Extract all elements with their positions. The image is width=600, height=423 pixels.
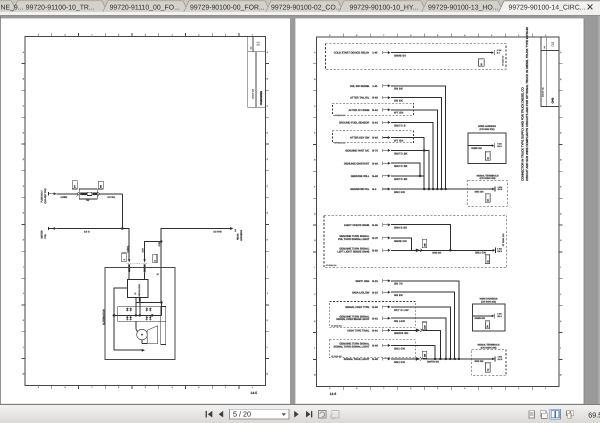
svg-text:SIGNAL HIGH TYPE: SIGNAL HIGH TYPE [345,306,369,309]
svg-text:7: 7 [91,34,92,37]
svg-text:(CN SGN4 GN): (CN SGN4 GN) [481,346,497,349]
svg-text:GENUINE PART A/C: GENUINE PART A/C [345,150,369,153]
svg-text:8: 8 [356,387,357,390]
svg-text:4: 4 [172,34,173,37]
svg-text:CIRCUIT AND SUB WIRE COMPLIANT: CIRCUIT AND SUB WIRE COMPLIANTS CIRCUITS… [525,27,529,181]
wire drop to meter wire [121,194,123,229]
svg-text:6: 6 [410,34,411,37]
wire label 0.5 Y (vertical) [142,247,145,252]
svg-text:L: L [23,346,24,349]
svg-text:CONNECTOR IN TRUCK TYPE SUPPLY: CONNECTOR IN TRUCK TYPE SUPPLY AND FOR T… [520,87,524,181]
svg-text:GN B: GN B [497,250,502,253]
wire branch to S pin [145,242,162,260]
case ground arrow [114,349,145,352]
row wire TAIL SW SENSE [350,84,446,189]
svg-text:GN/T/D GN: GN/T/D GN [427,361,439,364]
wire fuse to F1 [57,193,78,195]
junction dot R7-R8 [419,175,422,178]
svg-text:99729-90100-00_FOR...: 99729-90100-00_FOR... [190,4,265,11]
svg-text:12: 12 [486,261,489,263]
svg-text:6: 6 [118,34,119,37]
svg-text:99729-90100-10_HY...: 99729-90100-10_HY... [350,4,419,11]
wire L stub [128,272,130,279]
svg-text:L: L [560,347,561,350]
svg-text:AT SIGN 100: AT SIGN 100 [502,233,505,247]
svg-text:2: 2 [225,386,226,389]
svg-text:B-46: B-46 [372,137,378,140]
svg-text:3: 3 [198,34,199,37]
svg-text:5: 5 [145,34,146,37]
svg-text:5 / 20: 5 / 20 [233,410,251,419]
svg-text:WT GN: WT GN [394,139,403,142]
wire label 0.5 W-B [213,231,222,234]
row wire AFTER KEY SW [333,131,425,189]
svg-text:1W: 1W [234,229,237,232]
svg-text:GN B: GN B [497,145,502,148]
ground bus row 3 [344,351,493,364]
right page paper [295,18,585,403]
row wire GENUINE WILL [351,174,424,189]
svg-text:B-16: B-16 [372,291,378,294]
junction dot group2 [449,249,452,252]
svg-text:1-45: 1-45 [372,52,378,55]
svg-text:GN#B GN: GN#B GN [475,317,486,320]
svg-text:5: 5 [145,386,146,389]
svg-text:(CN SGN 100): (CN SGN 100) [481,301,496,304]
brush block [147,326,157,344]
wire rotor to frame [142,340,147,344]
svg-text:GN#B GN: GN#B GN [394,240,407,243]
svg-text:REGULATOR: REGULATOR [138,284,141,297]
row PNL TURN SIGNAL RIGHT [337,248,492,254]
bridge mid bus [114,314,162,316]
svg-text:1: 1 [252,386,253,389]
svg-text:GN#B B4: GN#B B4 [394,55,406,58]
left page frame zone digits [23,34,269,390]
svg-text:AT SIGN 100: AT SIGN 100 [331,355,342,358]
svg-text:21: 21 [480,63,483,65]
svg-text:GENUINE GN/START: GENUINE GN/START [344,162,370,165]
svg-text:8: 8 [65,386,66,389]
row COLD START DEVICE RELAY [334,51,492,58]
svg-text:GN# B BK: GN# B BK [394,227,407,230]
svg-text:12: 12 [486,369,489,371]
svg-text:(CN SGN 100): (CN SGN 100) [480,128,495,131]
svg-text:7: 7 [383,387,384,390]
svg-text:GEN/GFWD R/L: GEN/GFWD R/L [350,188,370,191]
svg-text:GN2 GN: GN2 GN [475,251,486,254]
pin terminal bus1 [492,186,503,192]
svg-text:GN2 GN: GN2 GN [432,252,441,255]
svg-text:SIGNAL TERMINALS: SIGNAL TERMINALS [477,343,500,346]
svg-text:GN/A-L/GLOW: GN/A-L/GLOW [352,291,370,294]
pin L male arrow [128,259,130,262]
svg-text:GN2 GN: GN2 GN [475,360,484,363]
svg-text:9: 9 [38,386,39,389]
svg-text:B-4: B-4 [372,188,377,191]
svg-text:GN2 GN: GN2 GN [394,347,405,350]
label ALTERNATOR (vertical) [102,309,105,325]
svg-text:9: 9 [329,387,330,390]
svg-text:(CN SGN4 GN): (CN SGN4 GN) [480,177,496,180]
svg-text:GN2 GN: GN2 GN [394,191,405,194]
svg-text:B-44: B-44 [372,329,378,332]
svg-text:3: 3 [491,387,492,390]
svg-text:LIGHT CHECK GN4B: LIGHT CHECK GN4B [344,224,369,227]
pin L female terminal [128,264,130,272]
connector mating dashed line [126,262,148,264]
junction dot [121,227,124,230]
bus 3 junction dots [434,358,460,361]
svg-text:7: 7 [383,34,384,37]
svg-text:B-48: B-48 [372,358,378,361]
svg-text:AT SIGN 100: AT SIGN 100 [335,114,346,117]
connector tag F7b [98,181,104,196]
svg-text:AFTER AT HOME: AFTER AT HOME [349,109,370,112]
svg-text:(15A KEY SW): (15A KEY SW) [44,188,47,203]
wire S stub [144,272,146,279]
junction dot R5 cross R6 [423,149,426,152]
node label REAR HARNESS (vertical) [236,229,243,241]
relay box wire harness [468,125,506,163]
svg-text:L: L [314,347,315,350]
connector tag F7a [72,181,78,197]
svg-text:8: 8 [65,34,66,37]
wire label 0.5 G [84,231,90,234]
svg-text:B-45: B-45 [372,224,378,227]
svg-text:SIGNAL TRAIL LIGHT: SIGNAL TRAIL LIGHT [344,358,370,361]
pin terminal TB1 [491,49,501,55]
svg-text:AT SIGN 100: AT SIGN 100 [326,264,337,267]
svg-text:CN SGN 1W: CN SGN 1W [502,56,505,66]
wire regulator bottom stub 2 [139,298,141,316]
wire regulator left path [114,288,127,350]
svg-text:9: 9 [38,34,39,37]
svg-text:CHG: CHG [552,98,555,104]
left page page frame border [25,37,266,386]
wire rear harness segment [161,229,230,242]
stator bar [161,307,166,345]
left page frame zone ticks [22,33,270,389]
svg-text:PNL: PNL [44,233,47,238]
svg-text:4: 4 [464,387,465,390]
svg-text:FUSE NO.7: FUSE NO.7 [40,190,43,203]
svg-text:7: 7 [91,386,92,389]
svg-text:12: 12 [486,325,489,327]
row wire GENUINE GN/START [344,162,420,176]
svg-text:99729-90100-02_CO...: 99729-90100-02_CO... [271,4,342,11]
svg-text:LEFT LIGHT SENSE GN4B: LEFT LIGHT SENSE GN4B [337,250,369,253]
svg-text:PNL TURN SIGNAL LIGHT: PNL TURN SIGNAL LIGHT [338,238,370,241]
svg-text:2: 2 [518,34,519,37]
connector box box1 [485,151,490,160]
junction dot S corner [160,301,163,304]
input arrow from meter [49,227,57,230]
rotor circle [137,329,148,340]
svg-text:5: 5 [437,387,438,390]
svg-text:99720-91110_00_FO...: 99720-91110_00_FO... [110,4,180,11]
svg-text:1-41: 1-41 [372,85,378,88]
svg-text:2: 2 [225,34,226,37]
wire label 0.5 W-L (vertical) [126,245,129,253]
svg-text:B-49: B-49 [372,175,378,178]
svg-text:GN#B GN: GN#B GN [471,147,482,150]
svg-text:4: 4 [172,386,173,389]
node label METER PNL (vertical) [40,230,47,238]
svg-text:B-70: B-70 [372,237,378,240]
vertical note CN SGN 1W [502,56,505,66]
svg-text:8: 8 [356,34,357,37]
svg-text:B-70: B-70 [372,150,378,153]
svg-text:ALTERNATOR: ALTERNATOR [102,309,105,325]
svg-text:0.85W: 0.85W [61,196,68,199]
row wire GENUINE PART A/C [345,149,429,189]
svg-text:B-40: B-40 [372,306,378,309]
svg-text:1W: 1W [423,243,426,246]
dashed group box turn signal [324,216,507,268]
group2 wire label [432,252,441,255]
wire label 0.5 W-L [108,196,117,199]
svg-text:L: L [267,346,268,349]
svg-text:7W: 7W [86,199,90,202]
svg-text:HARNESS: HARNESS [240,229,243,241]
sheet title (vertical) [520,27,528,181]
svg-text:3: 3 [198,386,199,389]
left page paper [1,18,291,403]
svg-text:J: J [560,293,561,296]
pin S female terminal [144,264,146,272]
junction dots on bridge bus [113,314,154,317]
svg-text:14-5: 14-5 [250,391,257,395]
browser tab bar [0,0,600,16]
svg-text:COLD START DEVICE RELAY: COLD START DEVICE RELAY [334,52,370,55]
left page number 14-5 [250,391,257,395]
junction dot regulator bus [113,314,116,317]
row PNL TURN SIGNAL LEFT [338,235,411,250]
row wire HIGH TYPE TRAIL [347,322,440,359]
svg-text:GN2 GN: GN2 GN [394,361,405,364]
svg-text:AT SIGN 100: AT SIGN 100 [335,142,346,145]
connector tag L pin [122,253,126,262]
node label KEY POWER (vertical) [40,188,47,203]
svg-text:AFTER KEY SW: AFTER KEY SW [350,137,370,140]
svg-text:B-15: B-15 [372,280,378,283]
svg-text:GN 7N: GN 7N [394,283,403,286]
row wire GN/TF GN4 [355,279,458,359]
svg-text:03: 03 [256,41,261,46]
svg-text:METER: METER [40,230,43,238]
wire S into bridge [160,302,162,315]
svg-text:GN/TF GN4: GN/TF GN4 [355,280,369,283]
connector box bus1 [485,194,490,203]
svg-text:SIGNAL TURN SIGNAL LIGHT: SIGNAL TURN SIGNAL LIGHT [334,345,370,348]
svg-text:0.5 G: 0.5 G [84,231,90,234]
pin terminal bus3 [492,356,503,362]
svg-text:GN/TD B: GN/TD B [394,124,406,127]
svg-text:9: 9 [329,34,330,37]
svg-text:AFTER TAIL R/L: AFTER TAIL R/L [350,97,370,100]
ground bus row 1 [350,187,492,194]
connector box box3 [485,321,490,329]
row wire SIGNAL HIGH TYPE [345,305,450,359]
svg-text:HIGH TYPE TRAIL: HIGH TYPE TRAIL [347,329,370,332]
window left edge [0,16,2,404]
svg-text:CHARGING: CHARGING [260,91,263,105]
svg-text:WIRE HARNESS: WIRE HARNESS [480,298,498,301]
wire fuse to corner [99,193,122,195]
svg-text:GN#FB GN: GN#FB GN [394,332,408,335]
svg-text:1W: 1W [423,354,426,357]
svg-text:GN BK: GN BK [394,294,403,297]
pin terminal box1 [492,142,503,148]
diode bridge box [118,307,166,322]
svg-text:1: 1 [545,34,546,37]
svg-text:12: 12 [486,157,489,159]
wire meter to L pin [57,229,130,260]
input arrow from fuse [49,192,57,195]
svg-text:GN/TD BK: GN/TD BK [394,178,408,181]
svg-text:NE_9...: NE_9... [1,4,24,11]
svg-text:GN LGN: GN LGN [394,320,405,323]
svg-text:B-42: B-42 [372,109,378,112]
relay box1 internal wire [468,146,492,150]
svg-text:WLT G L/W: WLT G L/W [394,309,409,312]
wire label 0.85W [61,196,68,199]
svg-text:TAIL SW SENSE: TAIL SW SENSE [350,85,370,88]
svg-text:4: 4 [464,34,465,37]
connector box group2 [485,254,489,263]
svg-text:J: J [23,292,24,295]
IC regulator box [128,280,149,298]
wire S horizontal [136,301,162,303]
junction dot S branch [160,240,163,243]
svg-text:B 6: B 6 [497,52,500,55]
svg-text:GN2 GN: GN2 GN [475,191,484,194]
connector tag S pin [153,254,157,263]
scrollbar sliver [598,16,600,405]
tag box group2 [422,239,426,248]
svg-text:GN B: GN B [498,188,503,191]
fuse F7 [77,189,99,202]
row wire AFTER AT HOME [333,103,438,189]
svg-text:REAR: REAR [236,233,239,240]
svg-text:AT SIGN 100: AT SIGN 100 [331,324,342,327]
svg-text:04: 04 [550,41,555,46]
wire regulator bottom stub 1 [135,298,137,316]
relay box wire harness 2 [473,298,505,331]
svg-text:12: 12 [487,199,490,201]
row wire GROUND FUEL SENSOR [339,121,433,189]
wire bridge to rotor [136,321,138,332]
connector box CN1 [478,59,484,67]
svg-text:1W: 1W [423,326,426,329]
svg-text:14-6: 14-6 [330,392,337,396]
pin label B [157,273,159,276]
bus3 wire label [475,360,484,363]
svg-text:5: 5 [437,34,438,37]
svg-text:B-48: B-48 [372,162,378,165]
rectifier diodes [126,308,152,321]
row wire SIGNAL TURN SIGNAL LIGHT [334,343,436,359]
alternator outer box [105,268,175,360]
svg-text:0.5W-L: 0.5W-L [126,245,129,253]
svg-text:0.5 W-L: 0.5 W-L [108,196,117,199]
svg-text:GENUINE WILL: GENUINE WILL [351,175,370,178]
svg-text:GROUND FUEL SENSOR: GROUND FUEL SENSOR [339,122,370,125]
svg-text:GN BK: GN BK [394,100,403,103]
svg-text:B-44: B-44 [372,122,378,125]
row wire GN/A-L/GLOW [352,291,455,359]
svg-text:99720-91100-10_TR...: 99720-91100-10_TR... [26,4,95,11]
svg-text:99729-90100-13_HO...: 99729-90100-13_HO... [428,4,499,11]
svg-text:6: 6 [118,386,119,389]
svg-text:WIRE HARNESS: WIRE HARNESS [478,125,496,128]
left page title block [248,37,266,108]
bottom status toolbar [0,404,600,423]
wire S drop [160,242,162,303]
right page title block [541,37,559,107]
bus 1 junction dots [423,188,447,191]
svg-text:GN BK: GN BK [394,88,403,91]
right page number 14-6 [330,392,337,396]
svg-text:GROUP 14B: GROUP 14B [542,86,545,97]
dashed box head light [329,302,415,328]
svg-text:J: J [267,292,268,295]
svg-text:GN B: GN B [497,315,502,318]
bus1 wire label [475,191,484,194]
dashed box safety loads [326,44,507,70]
svg-text:0.5Y: 0.5Y [142,247,145,252]
svg-text:SIGNAL HIGH BEAM LIGHT: SIGNAL HIGH BEAM LIGHT [336,318,369,321]
row wire AFTER TAIL R/L [350,96,441,189]
pin terminal group2 [475,247,503,254]
svg-text:0.5 W-B: 0.5 W-B [213,231,222,234]
svg-text:69.56: 69.56 [588,410,600,419]
svg-text:1 W4: 1 W4 [497,247,501,250]
right page page frame border [316,37,559,386]
svg-text:GN/TD BK: GN/TD BK [394,152,408,155]
relay box3 internal wire [473,316,492,320]
svg-text:GN/TD BK: GN/TD BK [394,165,408,168]
svg-text:GN B: GN B [498,358,503,361]
svg-text:SIGNAL TERMINALS: SIGNAL TERMINALS [476,174,499,177]
row wire SIGNAL HIGH BEAM LIGHT [336,316,446,359]
svg-text:WT GN: WT GN [394,112,403,115]
dashed box signal terminal 2 [472,343,506,375]
connector box bus3 [485,362,490,372]
right page frame zone digits [314,34,562,390]
row LIGHT CHECK GN4B [344,223,450,250]
pin terminal box3 [492,313,503,319]
output arrow to rear harness [230,227,237,232]
thick connector group2 [416,249,423,253]
svg-text:1: 1 [252,34,253,37]
pin S male arrow [143,259,145,262]
right page frame zone ticks [313,34,563,390]
svg-text:B-46: B-46 [372,345,378,348]
svg-text:B-42: B-42 [372,317,378,320]
wire label 0.5 W (vertical) [158,240,161,246]
svg-text:3: 3 [491,34,492,37]
dashed box turn light [329,340,415,358]
svg-text:99729-90100-14_CIRC...: 99729-90100-14_CIRC... [509,4,586,11]
svg-text:6: 6 [410,387,411,390]
svg-text:B-40: B-40 [372,97,378,100]
svg-text:J: J [314,293,315,296]
svg-text:B-59: B-59 [372,249,378,252]
svg-text:GROUP 14B: GROUP 14B [251,88,254,99]
dashed box signal terminal 1 [468,174,507,206]
